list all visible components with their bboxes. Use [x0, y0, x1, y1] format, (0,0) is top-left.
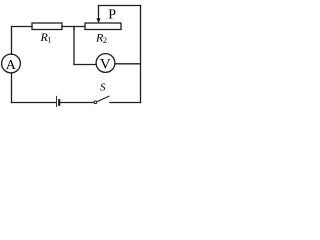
- wire: voltmeter branch vertical: [73, 27, 75, 65]
- svg-text:1: 1: [48, 36, 52, 45]
- rheostat slider arrow P shaft: [98, 6, 100, 20]
- battery cell long plate: [56, 96, 58, 106]
- svg-text:A: A: [6, 58, 17, 73]
- svg-text:2: 2: [103, 36, 107, 45]
- wire: switch to bottom-right corner: [110, 102, 141, 104]
- voltmeter V circle: [96, 54, 115, 73]
- wire: left rail bottom segment: [11, 73, 13, 103]
- wire: R1 to R2: [62, 26, 85, 28]
- wire: battery to switch: [60, 102, 94, 104]
- svg-text:S: S: [100, 81, 106, 93]
- wire: top-left horizontal to R1: [12, 26, 33, 28]
- rheostat slider arrowhead: [96, 18, 100, 23]
- node: junction of voltmeter branch: [73, 27, 75, 30]
- rheostat R2 box: [85, 23, 121, 30]
- wire: left rail top segment: [11, 27, 13, 55]
- switch S pivot: [94, 101, 97, 104]
- battery cell short plate: [58, 100, 60, 105]
- resistor R1 box: [32, 23, 62, 30]
- wire: top rail from slider to right rail: [99, 5, 141, 7]
- svg-text:P: P: [108, 8, 116, 23]
- wire: voltmeter branch horizontal: [74, 64, 96, 66]
- wire: voltmeter to right rail: [115, 63, 141, 65]
- wire: bottom rail left segment: [12, 102, 57, 104]
- svg-text:V: V: [100, 57, 111, 73]
- switch S blade: [97, 96, 109, 102]
- wire: right rail: [140, 6, 142, 103]
- ammeter A circle: [2, 54, 21, 73]
